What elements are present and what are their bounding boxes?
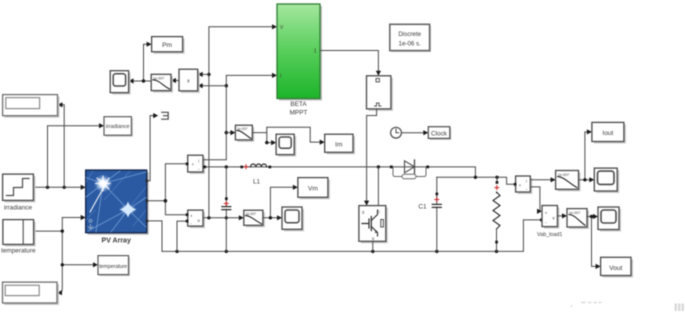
node Iout tee [583,178,586,181]
bottom rail [162,220,540,252]
svg-text:Pm: Pm [162,42,172,49]
arrow into Clock tag [423,130,428,135]
goto tag irradiance [104,117,133,137]
svg-text:C1: C1 [418,204,427,211]
node rail load [495,250,498,253]
capacitor Cin branch [222,167,231,252]
wire V tap to product [202,73,209,75]
node rail v- [175,250,178,253]
node IGBT collector tap [377,165,380,168]
PWM generator block [367,76,393,111]
current measurement i2 [516,176,533,194]
goto tag Im [325,134,355,154]
constant temperature [1,220,36,255]
faint footer dashes [571,302,602,307]
svg-text:Vm: Vm [308,186,318,193]
wire F4 out to scope S3 and Iout [579,132,591,180]
goto tag Pm [152,37,185,54]
main power wire top [203,167,475,177]
arrow into filter F4 [551,177,556,182]
svg-text:E: E [372,236,375,241]
svg-text:+: + [545,212,548,217]
powergui Discrete annotation [390,24,431,52]
wire i2 signal to filter F4 [530,179,552,181]
wire product out to filter F1 [176,80,180,82]
node Cin tap [225,165,228,168]
arrow into MPPT V [272,24,277,29]
wire v1 minus to rail [177,221,186,251]
svg-text:+: + [519,183,522,188]
wire F2 out to scope S2 and Im [252,127,320,142]
resistor load branch [493,177,500,251]
scope S2 [276,134,296,156]
capacitor C1 branch [418,177,441,251]
step source irradiance [3,174,36,211]
product block x [179,69,200,93]
svg-text:1e-06 s.: 1e-06 s. [399,40,422,47]
wire irradiance to PV Array In1 [33,186,82,188]
node rail C1 [435,250,438,253]
arrow into Iout [587,129,592,134]
scope S3 [594,168,619,193]
wire Im tap to filter F2 [226,132,232,134]
svg-text:temperature: temperature [1,248,36,255]
PV port - [146,220,149,223]
arrow into PV In1 [81,185,86,190]
filter F5 (Vout lowpass) [567,209,589,229]
node PV+ tee [164,199,168,203]
display D2 (temperature value) [3,282,60,305]
wire i1 signal up to MPPT I [203,75,274,159]
clock source [391,127,402,138]
wire v1 signal out [203,217,241,219]
node rail Cin [225,250,228,253]
node Vout tee [590,215,593,218]
goto tag Clock [428,127,451,140]
scope S4 [598,207,621,232]
arrow into filter F2 [230,130,235,135]
node product I tap [225,84,228,87]
i1 output port nub [203,166,206,169]
output node wire y177 [437,177,513,184]
arrow into IGBT gate [364,201,369,206]
wire V signal up to MPPT V [209,27,274,218]
arrow into temperature tag [93,262,98,267]
wire PV- to ground rail [148,221,162,252]
Vab minus port nub [540,219,543,222]
svg-text:Vout: Vout [609,265,622,272]
wire i2 power to Vab+ [530,187,540,211]
svg-text:irradiance: irradiance [4,205,33,212]
display D1 (irradiance value) [3,95,60,118]
svg-text:Im: Im [335,142,343,149]
wire Vab out to filter F5 [557,215,563,217]
svg-text:+: + [192,162,195,167]
node V vertical tee [207,216,210,219]
filter F3 (Vm lowpass) [244,210,265,227]
arrow into filter F5 [562,213,567,218]
wire PV+ node [148,164,186,215]
svg-text:i: i [526,179,527,184]
wire F3 out to scope S5 and Vm [263,187,295,218]
arrow into MPPT I [272,73,277,78]
arrow into Vout [596,264,601,269]
svg-text:Vab_load1: Vab_load1 [537,232,562,238]
arrow into terminator [153,113,158,118]
wire IGBT emitter to rail [372,241,374,251]
filter F4 (Iout lowpass) [556,171,581,192]
node Pm tee [142,79,145,82]
svg-text:1: 1 [314,49,317,55]
wire to irradiance goto tag [48,126,101,188]
arrow into Vm [293,185,298,190]
svg-text:MPPT: MPPT [290,110,308,117]
arrow into scope S5 [277,215,282,220]
node Cin crossing v-wire [225,216,228,219]
scope S5 [282,207,304,231]
IGBT Q1 [359,206,388,244]
svg-text:+: + [190,214,193,219]
filter F2 (Im lowpass) [235,125,254,142]
goto tag temperature [98,256,130,277]
subsystem U1 BETA MPPT [277,4,322,117]
arrow into product top input [198,72,203,77]
svg-text:Clock: Clock [431,131,448,138]
arrow into filter F1 right side [171,78,176,83]
wire F1 out to scope and Pm [132,44,151,81]
node Im filter tap [225,131,228,134]
svg-text:PV Array: PV Array [102,238,131,245]
goto tag Vm [298,178,330,200]
wire temperature out [34,218,95,293]
svg-text:Iout: Iout [602,130,613,137]
arrow into scope S1 [129,78,134,83]
v1 minus port nub [186,220,189,223]
voltage measurement Vab_load1 [537,206,562,238]
wire IGBT collector [377,167,379,205]
arrow into filter F3 [239,215,244,220]
svg-text:I: I [280,74,281,80]
inductor L1 [240,164,271,186]
wire to irradiance display [61,105,64,188]
arrow into display D2 [57,290,62,295]
svg-text:Discrete: Discrete [398,31,421,38]
node diode drop [474,176,477,179]
svg-text:g: g [362,209,364,214]
i1 left port nub [186,163,189,166]
svg-text:temperature: temperature [99,264,127,270]
arrow into Vab + [537,209,542,214]
arrow into scope S4 [593,214,598,219]
current measurement i1 [188,155,205,174]
goto tag Iout [592,122,626,143]
svg-text:irradiance: irradiance [106,124,130,130]
arrow into PWM top [376,71,381,76]
arrow into display D1 [58,102,63,107]
wire F5 out to scope S4 and Vout [587,217,597,267]
node temperature out tee [61,229,64,232]
node product V tap [207,73,210,76]
voltage measurement v1 [188,210,205,228]
i2 left port nub [514,183,517,186]
node irradiance-display tee [62,186,65,189]
arrow into scope S2 [271,140,276,145]
node S2 tee [265,141,268,144]
diode D with snubber [390,160,429,179]
svg-text:BETA: BETA [290,101,307,108]
svg-text:x: x [187,79,190,85]
arrow into product bottom input [198,83,203,88]
filter F1 (power lowpass, flipped) [151,74,173,92]
PV Array block [86,170,149,244]
node Vm tee [269,216,272,219]
node temperature tag tee [61,263,64,266]
wire MPPT out to PWM [320,51,378,73]
wire clock to Clock tag [401,132,424,134]
svg-text:L1: L1 [253,179,261,186]
svg-text:i: i [198,159,199,164]
wire PV m to terminator [148,116,154,181]
arrow into PV In2 [81,215,86,220]
goto tag Vout [601,257,633,277]
watermark [675,304,684,312]
node load top [495,176,498,179]
PV port + [146,200,149,203]
v1 plus port nub [186,213,189,216]
arrow into Im [320,140,325,145]
scope S1 [110,71,130,95]
node rail IGBT E [371,250,374,253]
wire I tap to product [202,85,227,87]
arrow into scope S3 [589,177,594,182]
wire PWM out to IGBT gate [367,109,377,202]
terminator glyph [162,112,169,119]
node irradiance-tag tee [46,186,49,189]
PV port m [146,180,149,183]
arrow into irradiance tag [99,123,104,128]
arrow into Pm [147,42,152,47]
